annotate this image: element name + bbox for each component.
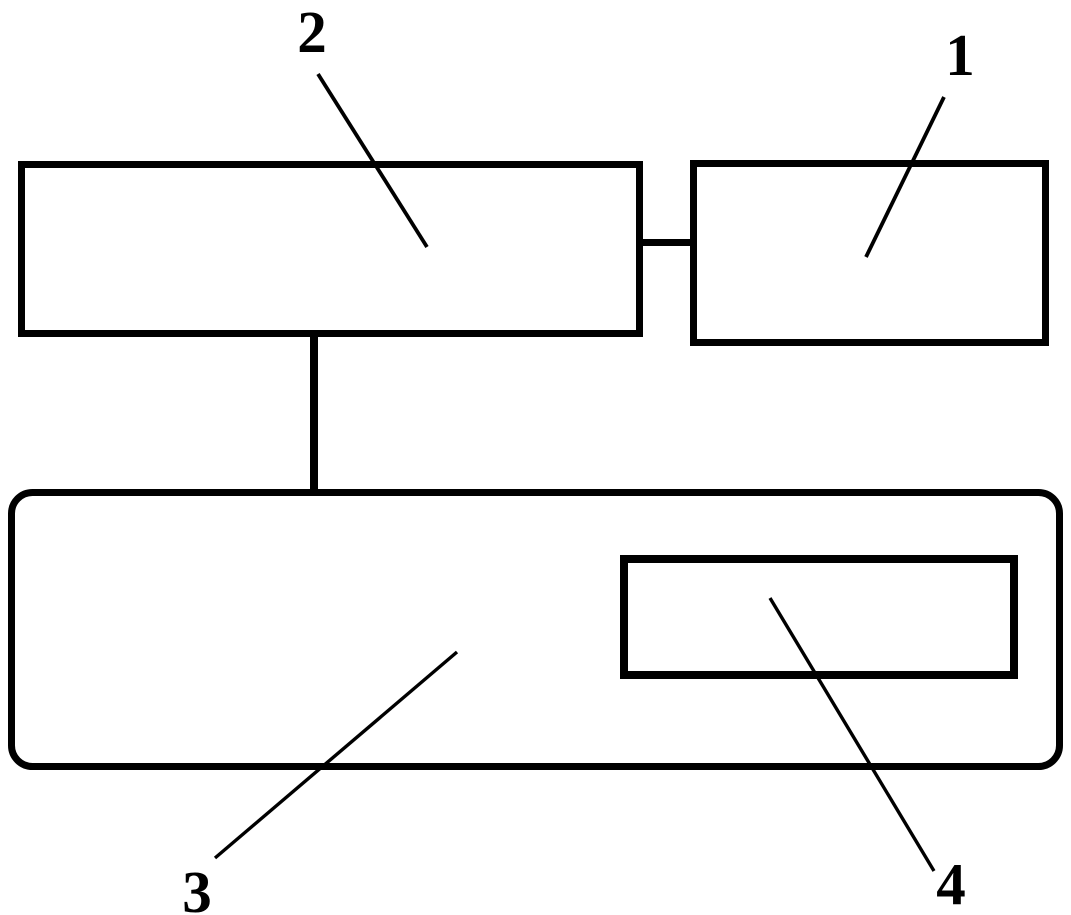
leader line for label 2 (318, 74, 427, 247)
leader line for label 4 (770, 598, 934, 871)
block 1 (top-right rectangle) (694, 164, 1046, 343)
wire between block 2 and block 1 (640, 239, 694, 246)
wire from block 2 down to block 3 (310, 334, 318, 495)
svg-text:2: 2 (297, 0, 327, 65)
block 2 (top-left rectangle) (22, 165, 640, 334)
block 3 (large rounded rectangle) (12, 493, 1060, 767)
svg-text:3: 3 (182, 859, 212, 915)
svg-text:1: 1 (945, 22, 975, 88)
block 4 (inner rectangle) (624, 559, 1014, 675)
leader line for label 1 (866, 97, 944, 257)
svg-text:4: 4 (936, 851, 966, 915)
leader line for label 3 (215, 652, 457, 858)
